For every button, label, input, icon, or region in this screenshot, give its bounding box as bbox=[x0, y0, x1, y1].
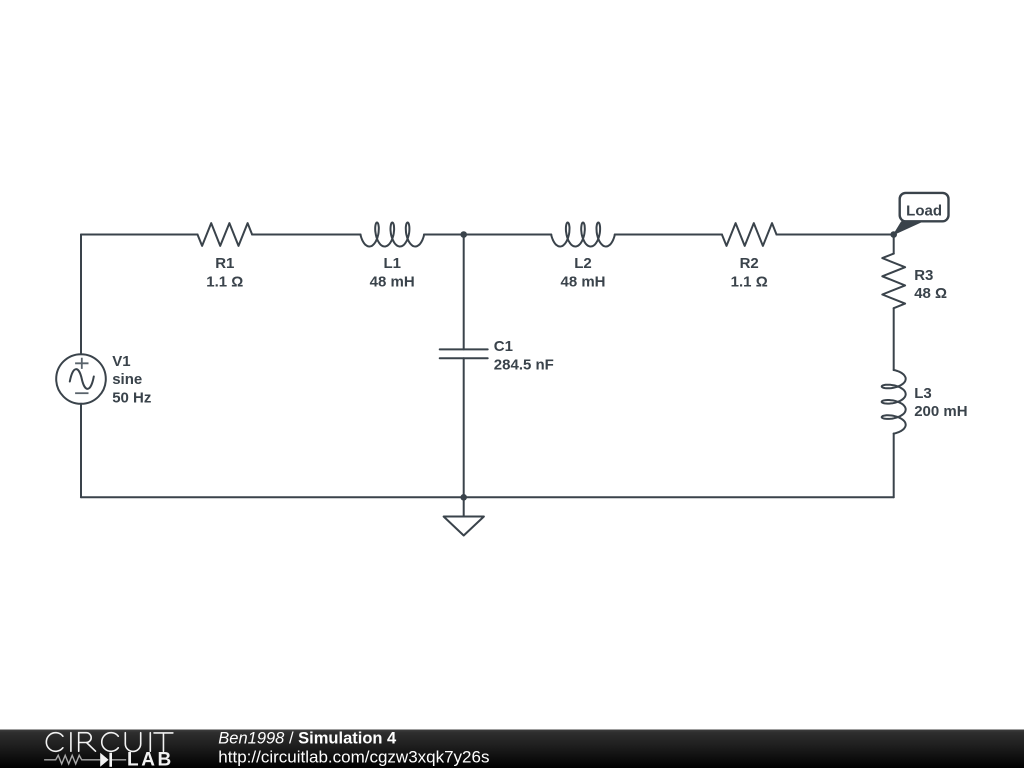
svg-text:48 mH: 48 mH bbox=[370, 273, 415, 290]
svg-text:C1: C1 bbox=[494, 338, 513, 355]
inductor L3 bbox=[882, 370, 906, 434]
wire: L3 to bottom rail bbox=[893, 434, 895, 498]
wire: V1 to bottom rail bbox=[80, 404, 82, 498]
wire: L1 to node A bbox=[424, 234, 464, 236]
inductor L2 bbox=[551, 223, 615, 247]
wire: L2 to R2 bbox=[615, 234, 722, 236]
wire: R2 to node B (load node) bbox=[777, 234, 894, 236]
wire: R1 to L1 bbox=[252, 234, 360, 236]
svg-text:http://circuitlab.com/cgzw3xqk: http://circuitlab.com/cgzw3xqk7y26s bbox=[218, 747, 489, 766]
svg-text:V1: V1 bbox=[112, 353, 130, 370]
node B (load junction) bbox=[890, 231, 897, 238]
voltage source V1 bbox=[56, 354, 106, 404]
resistor R1 bbox=[198, 223, 253, 246]
logo diode bbox=[100, 753, 108, 767]
V1 minus sign bbox=[75, 392, 88, 394]
svg-text:L3: L3 bbox=[914, 385, 932, 402]
capacitor C1 bbox=[440, 349, 488, 358]
flag Load: pointer tail bbox=[894, 222, 922, 235]
wire: left rail down to V1 bbox=[80, 235, 82, 355]
svg-text:1.1 Ω: 1.1 Ω bbox=[731, 273, 768, 290]
inductor L1 bbox=[361, 223, 425, 247]
svg-text:R1: R1 bbox=[215, 255, 234, 272]
svg-text:Ben1998 / Simulation 4: Ben1998 / Simulation 4 bbox=[218, 729, 397, 747]
resistor R2 bbox=[722, 223, 777, 246]
logo CIRCUIT bbox=[46, 733, 173, 752]
svg-text:R3: R3 bbox=[914, 267, 933, 284]
wire: node A to L2 bbox=[464, 234, 552, 236]
wire: node A down to C1 bbox=[463, 235, 465, 350]
svg-text:48 mH: 48 mH bbox=[560, 273, 605, 290]
svg-text:284.5 nF: 284.5 nF bbox=[494, 356, 554, 373]
wire: R3 to L3 bbox=[893, 308, 895, 370]
ground bbox=[463, 497, 465, 516]
resistor R3 bbox=[882, 254, 905, 309]
logo resistor-diode line bbox=[44, 755, 126, 764]
wire: C1 down to bottom rail bbox=[463, 358, 465, 497]
wire: right rail node B to R3 bbox=[893, 235, 895, 254]
svg-text:sine: sine bbox=[112, 371, 142, 388]
V1 plus sign bbox=[75, 358, 88, 369]
flag Load: box bbox=[900, 193, 949, 221]
svg-text:50 Hz: 50 Hz bbox=[112, 390, 151, 407]
svg-text:R2: R2 bbox=[740, 255, 759, 272]
svg-text:LAB: LAB bbox=[127, 750, 174, 768]
svg-text:L2: L2 bbox=[574, 255, 592, 272]
footer bar bbox=[0, 730, 1024, 768]
wire: bottom rail bbox=[81, 496, 894, 498]
wire: top rail left segment (corner to R1) bbox=[81, 234, 198, 236]
svg-text:L1: L1 bbox=[383, 255, 401, 272]
svg-text:Load: Load bbox=[906, 203, 942, 220]
node A (top middle junction) bbox=[460, 231, 467, 238]
node C (ground junction) bbox=[460, 494, 467, 501]
svg-text:48 Ω: 48 Ω bbox=[914, 285, 947, 302]
svg-text:200 mH: 200 mH bbox=[914, 403, 967, 420]
svg-text:1.1 Ω: 1.1 Ω bbox=[206, 273, 243, 290]
